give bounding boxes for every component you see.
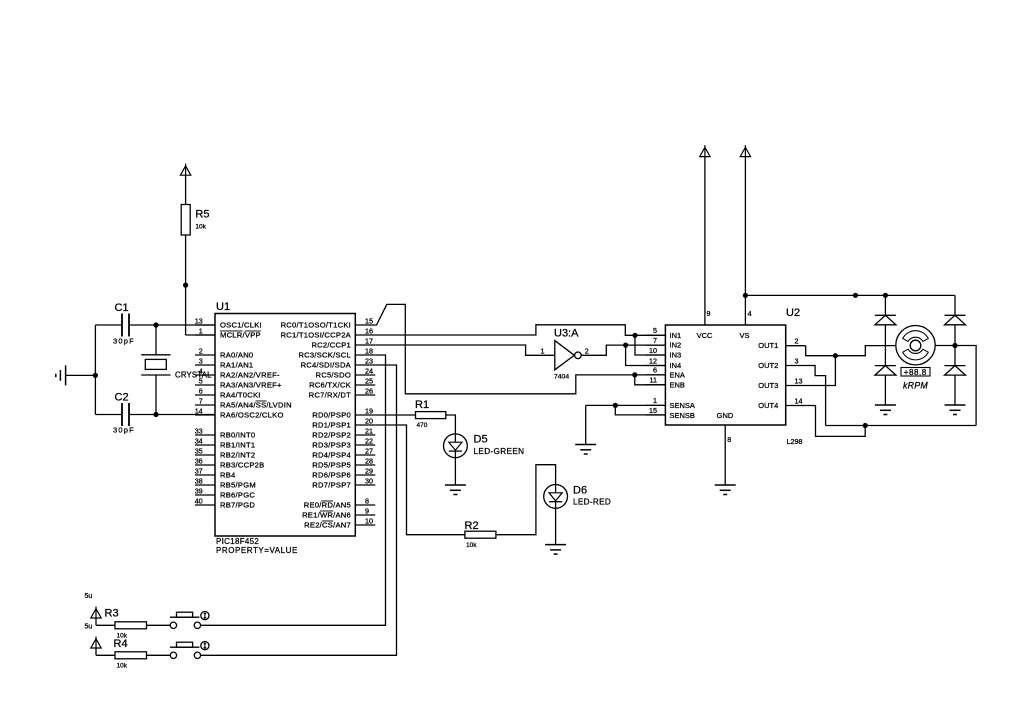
svg-text:22: 22 — [365, 437, 373, 446]
svg-text:15: 15 — [365, 317, 373, 326]
op-amp U1 PIC18F452 body — [215, 301, 355, 555]
junction ground tap — [93, 373, 98, 378]
svg-text:39: 39 — [195, 487, 203, 496]
svg-text:16: 16 — [365, 327, 373, 336]
svg-text:R4: R4 — [114, 638, 128, 650]
svg-text:RC7/RX/DT: RC7/RX/DT — [309, 391, 351, 400]
svg-text:30pF: 30pF — [113, 426, 135, 435]
svg-text:VCC: VCC — [697, 331, 713, 340]
svg-text:8: 8 — [365, 497, 369, 506]
wire R5 to MCLR pin 1 — [186, 235, 215, 335]
U1 pin 37 — [195, 467, 236, 480]
motor M1 — [896, 326, 955, 365]
wire R3 to button — [147, 624, 171, 626]
U1 pin 2 — [195, 347, 253, 360]
svg-text:PIC18F452: PIC18F452 — [216, 537, 259, 546]
power symbol VCC (U2 pin 9) — [700, 145, 710, 157]
svg-text:OUT2: OUT2 — [758, 361, 778, 370]
wire SENS ground stem — [585, 405, 587, 444]
svg-text:29: 29 — [365, 467, 373, 476]
U1 pin 21 — [312, 427, 375, 440]
svg-text:13: 13 — [195, 317, 203, 326]
resistor R5 — [181, 205, 209, 236]
U1 pin 23 — [301, 357, 376, 370]
svg-text:R5: R5 — [195, 209, 209, 221]
wire RC2 to inverter input — [375, 345, 555, 355]
svg-text:8: 8 — [727, 435, 731, 444]
ground (oscillator) — [56, 365, 66, 385]
svg-text:kRPM: kRPM — [903, 380, 928, 390]
svg-text:RE2/CS/AN7: RE2/CS/AN7 — [304, 521, 351, 530]
svg-text:5: 5 — [653, 326, 657, 335]
svg-text:MCLR/VPP: MCLR/VPP — [220, 331, 261, 340]
svg-text:SENSB: SENSB — [670, 411, 695, 420]
U1 pin 30 — [312, 477, 375, 490]
wire IN4 branch — [626, 345, 666, 365]
svg-text:L298: L298 — [787, 437, 803, 446]
wire oscillator left rail — [94, 325, 96, 415]
svg-text:25: 25 — [365, 377, 373, 386]
svg-text:26: 26 — [365, 387, 373, 396]
svg-text:RE1/WR/AN6: RE1/WR/AN6 — [302, 511, 351, 520]
svg-text:1: 1 — [653, 396, 657, 405]
svg-text:1: 1 — [199, 327, 203, 336]
LED D6 — [544, 485, 611, 509]
svg-text:VS: VS — [739, 331, 749, 340]
ground (D5) — [445, 485, 466, 495]
svg-text:RA3/AN3/VREF+: RA3/AN3/VREF+ — [220, 381, 282, 390]
svg-text:RC0/T1OSO/T1CKI: RC0/T1OSO/T1CKI — [281, 321, 351, 330]
U1 pin 9 — [302, 507, 375, 520]
wire OUT3 branch — [806, 356, 836, 386]
U1 pin 29 — [312, 467, 375, 480]
crystal X1 — [141, 325, 212, 415]
svg-text:RD5/PSP5: RD5/PSP5 — [312, 461, 351, 470]
U1 pin 38 — [195, 477, 256, 490]
ground (bridge right) — [945, 405, 966, 415]
diode D3 (lower left) — [875, 366, 896, 376]
svg-text:RA4/T0CKI: RA4/T0CKI — [220, 391, 261, 400]
svg-text:11: 11 — [650, 376, 657, 385]
push button (R4 row) — [170, 642, 209, 659]
U1 pin 27 — [312, 447, 375, 460]
svg-text:15: 15 — [649, 406, 657, 415]
wire VS to U2 — [745, 157, 751, 325]
wire ground to oscillator net — [66, 374, 96, 376]
U1 pin 35 — [195, 447, 256, 460]
svg-text:10: 10 — [365, 517, 373, 526]
U2 pin 10 — [645, 346, 665, 355]
svg-text:RA0/AN0: RA0/AN0 — [220, 351, 253, 360]
U1 pin 4 — [195, 367, 280, 380]
wire OUT4 to bottom rail — [806, 406, 866, 437]
svg-text:36: 36 — [195, 457, 203, 466]
U1 pin 40 — [195, 497, 256, 510]
svg-text:RB4: RB4 — [220, 471, 236, 480]
junction IN1 branch — [632, 333, 637, 338]
svg-text:RC5/SDO: RC5/SDO — [315, 371, 351, 380]
U1 pin 5 — [195, 377, 282, 390]
ground (SENS) — [575, 445, 596, 455]
svg-text:27: 27 — [365, 447, 373, 456]
svg-text:14: 14 — [195, 407, 203, 416]
U1 pin 28 — [312, 457, 375, 470]
wire D6 to ground — [555, 508, 557, 544]
svg-text:RB7/PGD: RB7/PGD — [220, 501, 255, 510]
svg-text:LED-RED: LED-RED — [573, 498, 611, 507]
svg-text:R2: R2 — [465, 520, 479, 532]
svg-text:RD1/PSP1: RD1/PSP1 — [312, 421, 351, 430]
junction VS rail — [743, 293, 748, 298]
svg-text:2: 2 — [199, 347, 203, 356]
svg-text:19: 19 — [365, 407, 373, 416]
U1 pin 7 — [195, 397, 292, 410]
svg-text:RB0/INT0: RB0/INT0 — [220, 431, 255, 440]
svg-text:4: 4 — [199, 367, 203, 376]
wire IN3 branch — [635, 335, 665, 355]
ground (D6) — [545, 545, 566, 555]
U1 pin 10 — [304, 517, 375, 530]
svg-text:37: 37 — [195, 467, 203, 476]
svg-text:33: 33 — [195, 427, 203, 436]
svg-text:38: 38 — [195, 477, 203, 486]
svg-text:RB1/INT1: RB1/INT1 — [220, 441, 255, 450]
svg-text:RB3/CCP2B: RB3/CCP2B — [220, 461, 264, 470]
svg-text:RE0/RD/AN5: RE0/RD/AN5 — [304, 501, 351, 510]
svg-text:IN2: IN2 — [670, 341, 682, 350]
svg-text:ENB: ENB — [670, 380, 685, 389]
svg-text:RD3/PSP3: RD3/PSP3 — [312, 441, 351, 450]
U2 pin 11 — [645, 376, 665, 385]
svg-text:20: 20 — [365, 417, 373, 426]
wire RD0 to R1 — [375, 414, 415, 416]
ground (U2) — [715, 485, 736, 495]
svg-text:RC4/SDI/SDA: RC4/SDI/SDA — [301, 361, 352, 370]
capacitor C1 — [95, 302, 215, 346]
power symbol (R3) — [91, 607, 101, 619]
svg-text:U2: U2 — [786, 307, 800, 319]
svg-text:RC1/T1OSI/CCP2A: RC1/T1OSI/CCP2A — [281, 331, 352, 340]
wire SENSB branch — [615, 405, 665, 415]
svg-text:30pF: 30pF — [113, 337, 135, 346]
svg-text:9: 9 — [707, 309, 711, 318]
svg-text:10k: 10k — [466, 542, 477, 549]
U1 pin 25 — [309, 377, 375, 390]
svg-text:9: 9 — [365, 507, 369, 516]
svg-text:40: 40 — [195, 497, 203, 506]
svg-text:U1: U1 — [216, 301, 230, 313]
svg-text:RA6/OSC2/CLKO: RA6/OSC2/CLKO — [220, 411, 284, 420]
wire R2 to D6 — [496, 465, 556, 535]
wire RC1 to IN1 net — [375, 325, 665, 336]
resistor R1 — [415, 399, 446, 429]
svg-text:OUT4: OUT4 — [758, 401, 778, 410]
wire VS top rail — [745, 294, 955, 296]
LED D5 — [444, 433, 525, 457]
wire button to RC3 — [201, 355, 386, 625]
power symbol VS (U2 pin 4) — [740, 145, 750, 157]
svg-text:R3: R3 — [105, 607, 119, 619]
junction top rail A — [853, 293, 858, 298]
U2 pin 5 — [645, 326, 665, 335]
svg-text:5: 5 — [199, 377, 203, 386]
U2 pin 6 — [645, 366, 665, 375]
svg-text:17: 17 — [365, 337, 373, 346]
svg-text:18: 18 — [365, 347, 373, 356]
U1 pin 16 — [281, 327, 376, 340]
junction ENA branch — [632, 372, 637, 377]
junction node OSC2 — [153, 412, 158, 417]
svg-text:RC6/TX/CK: RC6/TX/CK — [309, 381, 351, 390]
svg-text:6: 6 — [653, 366, 657, 375]
svg-text:6: 6 — [199, 387, 203, 396]
wire R4 to button — [147, 654, 171, 656]
svg-text:2: 2 — [795, 337, 799, 346]
diode D1 (upper left) — [875, 315, 896, 325]
wire OUT2 to bottom rail — [806, 366, 826, 426]
svg-text:OUT1: OUT1 — [758, 341, 778, 350]
svg-text:14: 14 — [795, 396, 803, 405]
svg-text:U3:A: U3:A — [554, 328, 579, 340]
svg-text:2: 2 — [585, 346, 589, 355]
svg-text:3: 3 — [795, 356, 799, 365]
power symbol VCC (R5 top) — [180, 164, 190, 176]
svg-text:4: 4 — [748, 309, 752, 318]
wire VCC to U2 — [705, 157, 711, 325]
svg-text:GND: GND — [717, 411, 734, 420]
svg-text:23: 23 — [365, 357, 373, 366]
svg-text:13: 13 — [795, 376, 803, 385]
svg-text:7: 7 — [653, 336, 657, 345]
U1 pin 18 — [298, 347, 375, 360]
svg-text:RD0/PSP0: RD0/PSP0 — [312, 411, 351, 420]
svg-text:R1: R1 — [415, 399, 429, 411]
capacitor C2 — [95, 392, 215, 435]
wire SENSA to ground net — [586, 404, 666, 406]
U2 pin 13 — [786, 376, 806, 385]
svg-text:RA1/AN1: RA1/AN1 — [220, 361, 253, 370]
svg-text:12: 12 — [649, 356, 657, 365]
svg-text:470: 470 — [417, 422, 428, 429]
wire OUT1 to motor left — [806, 346, 896, 356]
net label 5u lower — [85, 623, 93, 630]
svg-text:D5: D5 — [474, 433, 488, 445]
wire button to RC4 — [201, 365, 397, 655]
wire RC0 to ENA/ENB net — [375, 304, 665, 393]
wire inverter output to IN2 net — [581, 345, 665, 355]
U2 pin 3 — [786, 356, 806, 365]
U1 pin 3 — [195, 357, 253, 370]
op-amp U2 L298 body — [665, 307, 802, 446]
U1 pin 1 — [195, 327, 261, 340]
svg-text:RD4/PSP4: RD4/PSP4 — [312, 451, 351, 460]
U1 pin 33 — [195, 427, 256, 440]
U1 pin 17 — [311, 337, 375, 350]
svg-text:LED-GREEN: LED-GREEN — [474, 447, 525, 456]
U2 pin 15 — [645, 406, 665, 415]
svg-text:24: 24 — [365, 367, 373, 376]
svg-text:D6: D6 — [573, 485, 587, 497]
svg-text:5u: 5u — [85, 593, 93, 600]
svg-text:SENSA: SENSA — [670, 401, 695, 410]
U2 pin 2 — [786, 337, 806, 346]
U2 pin 1 — [645, 396, 665, 405]
wire R5 top stem — [185, 175, 187, 204]
junction IN2 branch — [623, 343, 628, 348]
junction SENSA branch — [613, 403, 618, 408]
U1 pin 22 — [312, 437, 375, 450]
svg-text:10k: 10k — [117, 663, 128, 670]
junction node OSC1 — [153, 322, 158, 327]
svg-text:RD7/PSP7: RD7/PSP7 — [312, 481, 351, 490]
U1 pin 26 — [309, 387, 376, 400]
U1 pin 39 — [195, 487, 256, 500]
junction OUT1/OUT3 — [833, 353, 838, 358]
svg-text:C1: C1 — [115, 302, 129, 314]
svg-text:7404: 7404 — [554, 374, 569, 381]
U1 pin 34 — [195, 437, 256, 450]
U2 pin 8 GND wire — [725, 425, 731, 485]
wire left diode column — [884, 295, 886, 405]
svg-text:IN4: IN4 — [670, 361, 682, 370]
U1 pin 24 — [315, 367, 375, 380]
svg-text:RB6/PGC: RB6/PGC — [220, 491, 255, 500]
svg-text:C2: C2 — [115, 392, 129, 404]
power symbol (R4) — [91, 637, 101, 649]
svg-text:7: 7 — [199, 397, 203, 406]
push button (R3 row) — [170, 612, 209, 629]
U1 pin 36 — [195, 457, 265, 470]
svg-text:IN3: IN3 — [670, 351, 682, 360]
wire bottom rail — [826, 425, 977, 427]
svg-text:10: 10 — [649, 346, 657, 355]
U2 pin 7 — [645, 336, 665, 345]
svg-text:RC3/SCK/SCL: RC3/SCK/SCL — [298, 351, 351, 360]
wire RD1 to R2 — [375, 425, 465, 535]
wire bridge right return — [955, 346, 976, 426]
U1 pin 15 — [281, 317, 376, 330]
resistor R2 — [465, 520, 496, 549]
svg-text:+88.8: +88.8 — [904, 368, 927, 377]
svg-text:RD6/PSP6: RD6/PSP6 — [312, 471, 351, 480]
svg-text:OUT3: OUT3 — [758, 381, 778, 390]
wire R1 to D5 — [446, 415, 456, 434]
motor rpm display — [901, 368, 930, 377]
diode D2 (upper right) — [945, 315, 966, 325]
U2 pin 14 — [786, 396, 806, 405]
svg-text:RA5/AN4/SS/LVDIN: RA5/AN4/SS/LVDIN — [220, 401, 292, 410]
U2 pin 12 — [645, 356, 665, 365]
svg-text:RB2/INT2: RB2/INT2 — [220, 451, 255, 460]
svg-text:ENA: ENA — [670, 371, 685, 380]
U1 pin 14 — [195, 407, 284, 420]
svg-text:30: 30 — [365, 477, 373, 486]
resistor R3 — [105, 607, 147, 639]
svg-text:PROPERTY=VALUE: PROPERTY=VALUE — [216, 546, 298, 555]
U1 pin 6 — [195, 387, 261, 400]
svg-text:OSC1/CLKI: OSC1/CLKI — [220, 321, 262, 330]
junction top rail B — [883, 293, 888, 298]
svg-text:IN1: IN1 — [670, 331, 682, 340]
resistor R4 — [114, 638, 147, 669]
U1 pin 19 — [312, 407, 375, 420]
wire D5 to ground — [454, 458, 456, 485]
wire R4 row left — [96, 648, 115, 655]
svg-text:28: 28 — [365, 457, 373, 466]
wire R3 row left — [96, 618, 115, 625]
svg-text:21: 21 — [365, 427, 373, 436]
svg-text:RC2/CCP1: RC2/CCP1 — [311, 341, 351, 350]
svg-text:10k: 10k — [195, 224, 206, 231]
U1 pin 13 — [195, 317, 262, 330]
junction motor right node — [952, 343, 957, 348]
diode D4 (lower right) — [945, 366, 966, 376]
wire ENB branch — [635, 375, 666, 385]
svg-text:5u: 5u — [85, 623, 93, 630]
net label 5u upper — [85, 593, 93, 600]
svg-text:34: 34 — [195, 437, 203, 446]
svg-text:RA2/AN2/VREF-: RA2/AN2/VREF- — [220, 371, 280, 380]
svg-text:RD2/PSP2: RD2/PSP2 — [312, 431, 351, 440]
svg-text:35: 35 — [195, 447, 203, 456]
junction on R5 net — [183, 283, 188, 288]
wire right diode column — [954, 295, 956, 405]
ground (bridge left) — [875, 405, 896, 415]
svg-text:RB5/PGM: RB5/PGM — [220, 481, 256, 490]
U1 pin 20 — [312, 417, 375, 430]
inverter U3:A 7404 — [541, 328, 589, 381]
motor kRPM label — [903, 380, 928, 390]
junction OUT4/bottom rail — [863, 423, 868, 428]
U1 pin 8 — [304, 497, 376, 510]
svg-text:1: 1 — [541, 346, 545, 355]
svg-text:3: 3 — [199, 357, 203, 366]
